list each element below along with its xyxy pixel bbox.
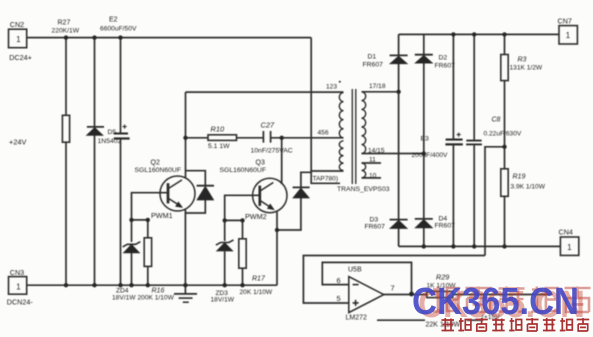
wire pin 11 stub <box>362 162 382 164</box>
node Q3 emitter diode <box>275 228 279 232</box>
connector CN7 <box>559 26 577 44</box>
watermark red large <box>433 287 591 313</box>
transformer T1 secondary winding 17/18-14/15 <box>362 92 366 154</box>
svg-text:D5: D5 <box>108 129 117 136</box>
wire E2 branch <box>120 38 122 286</box>
svg-text:R16: R16 <box>152 287 165 294</box>
svg-text:SGL160N60UF: SGL160N60UF <box>220 167 266 174</box>
node bottom bus ZD3 <box>223 283 227 287</box>
wire op-amp pin5 loop <box>303 256 485 304</box>
wire R3-R19 branch <box>504 34 506 246</box>
svg-text:CK365.CN: CK365.CN <box>412 281 579 323</box>
connector CN3 <box>9 277 27 295</box>
svg-text:E2: E2 <box>109 17 118 24</box>
wire op-amp pin6 feedback loop <box>322 262 411 294</box>
node C27 right / Q3 collector <box>280 136 284 140</box>
svg-text:E3: E3 <box>421 136 430 143</box>
wire ZD3 branch <box>224 220 226 285</box>
svg-text:ZD4: ZD4 <box>116 287 129 294</box>
transistor Q2 <box>160 176 195 211</box>
wire ZD4 branch <box>131 220 133 285</box>
zener ZD4 <box>123 242 141 253</box>
transistor Q3 <box>253 178 287 212</box>
wire Q3 collector <box>281 138 283 184</box>
wire Q3 base <box>225 195 259 220</box>
wire bottom DCN24- bus <box>27 284 277 286</box>
svg-text:LM272: LM272 <box>346 315 368 322</box>
resistor R19 <box>501 169 508 197</box>
svg-text:200K 1/10W: 200K 1/10W <box>138 294 175 301</box>
node divider R3-R19 <box>502 145 506 149</box>
wire top output bus to CN7 <box>399 33 559 35</box>
svg-text:18V/1W: 18V/1W <box>112 294 136 301</box>
node R10 left / Q2 collector <box>183 136 187 140</box>
node bottom bus R27 <box>64 283 68 287</box>
wire divider sense branch <box>485 147 505 256</box>
svg-text:14/15: 14/15 <box>368 148 385 155</box>
wire secondary 14/15 <box>362 153 424 155</box>
svg-text:C8: C8 <box>492 117 501 124</box>
svg-text:DCN24-: DCN24- <box>7 298 34 307</box>
svg-text:+24V: +24V <box>9 138 27 147</box>
capacitor E2 <box>114 125 130 139</box>
svg-text:7: 7 <box>391 284 395 293</box>
svg-text:FR607: FR607 <box>435 223 456 230</box>
svg-text:D4: D4 <box>439 216 448 223</box>
node PWM2 R17 <box>240 218 244 222</box>
diode D5 <box>87 127 104 135</box>
svg-text:6: 6 <box>337 276 341 285</box>
resistor R3 <box>501 55 508 81</box>
svg-text:U5B: U5B <box>348 267 362 274</box>
svg-text:1: 1 <box>16 35 20 44</box>
svg-text:C27: C27 <box>261 121 275 130</box>
node op-amp output <box>409 292 414 297</box>
wire C27 to tap 456 <box>271 137 344 139</box>
svg-text:220K/1W: 220K/1W <box>52 27 80 34</box>
svg-text:10: 10 <box>369 172 377 179</box>
svg-text:D3: D3 <box>370 217 379 224</box>
svg-text:1N5402: 1N5402 <box>98 138 122 145</box>
watermark caption <box>442 318 590 332</box>
wire pin 10 stub <box>362 177 382 179</box>
wire primary top 123 <box>186 91 344 93</box>
svg-text:CN2: CN2 <box>10 20 24 29</box>
resistor R16 <box>144 238 151 267</box>
node bottom bus ZD4 <box>129 283 133 287</box>
wire ground stub <box>184 285 186 293</box>
svg-text:200uF/400V: 200uF/400V <box>412 152 449 159</box>
wire D5 branch <box>94 38 96 286</box>
wire secondary 17/18 <box>362 91 399 93</box>
diode body Q2 <box>197 186 214 200</box>
svg-text:6600uF/50V: 6600uF/50V <box>100 25 137 32</box>
node bottom bus C8 <box>472 244 476 248</box>
op-amp U5B <box>349 277 384 313</box>
connector CN2 <box>9 29 27 48</box>
node bottom bus ground <box>183 283 187 287</box>
svg-text:D2: D2 <box>439 55 448 62</box>
svg-text:R19: R19 <box>513 174 526 181</box>
svg-text:PWM1: PWM1 <box>151 211 173 220</box>
zener ZD3 <box>216 240 234 251</box>
node PWM2 ZD3 <box>223 218 227 222</box>
capacitor C27 <box>263 131 270 143</box>
svg-text:DC24+: DC24+ <box>9 53 32 62</box>
node bottom bus R19 <box>502 244 506 248</box>
svg-text:SGL160N60UF: SGL160N60UF <box>135 167 181 174</box>
svg-text:0.22uF/630V: 0.22uF/630V <box>484 131 522 138</box>
wire 22K resistor leads <box>377 319 483 321</box>
wire E3 branch <box>452 34 454 246</box>
resistor R17 <box>239 239 246 268</box>
diode body Q3 <box>293 187 310 198</box>
node bottom bus R17 <box>240 283 244 287</box>
svg-text:D1: D1 <box>368 54 377 61</box>
svg-text:R17: R17 <box>252 276 266 283</box>
wire R17 branch <box>242 220 244 285</box>
node bottom bus D4 <box>422 244 426 248</box>
wire TAP780 loop <box>311 171 343 183</box>
wire R10 to C27 <box>237 137 264 139</box>
svg-text:5.1 1W: 5.1 1W <box>208 143 230 150</box>
wire C8 branch <box>473 34 475 246</box>
capacitor E3 <box>445 133 462 145</box>
node top bus R3 <box>502 32 506 36</box>
wire Q3 diode top link <box>301 172 311 186</box>
node top bus E2 <box>118 35 122 39</box>
node bottom bus R16 <box>146 283 150 287</box>
node bottom bus E3 <box>451 244 455 248</box>
wire D1-D3 vertical <box>398 34 400 246</box>
capacitor C8 <box>466 141 482 145</box>
node top bus D5 <box>92 35 96 39</box>
node secondary 17/18 <box>396 90 400 94</box>
node PWM1 ZD4 <box>129 218 133 222</box>
svg-text:Q2: Q2 <box>151 160 160 167</box>
svg-text:R10: R10 <box>211 125 225 134</box>
svg-text:1: 1 <box>16 283 20 292</box>
svg-text:11: 11 <box>369 157 376 164</box>
wire top DC24+ bus <box>27 37 311 39</box>
diode D3 <box>390 220 408 229</box>
node secondary 14/15 <box>422 151 426 155</box>
diode D4 <box>415 219 433 228</box>
node bottom bus E2 <box>118 283 122 287</box>
resistor R27 <box>62 115 69 142</box>
wire D2-D4 vertical <box>423 34 425 246</box>
wire Q3 diode to emitter <box>277 198 301 230</box>
svg-text:TRANS_EVPS03: TRANS_EVPS03 <box>337 186 390 193</box>
svg-text:131K 1/2W: 131K 1/2W <box>510 65 543 72</box>
svg-text:17/18: 17/18 <box>369 83 386 90</box>
svg-text:1: 1 <box>567 243 571 252</box>
svg-text:R27: R27 <box>58 20 71 27</box>
diode D2 <box>415 55 433 63</box>
node bottom bus D5 <box>92 283 96 287</box>
wire Q2 emitter <box>184 209 186 286</box>
wire bus drop to TAP780 node <box>310 38 312 171</box>
svg-text:FR607: FR607 <box>365 224 386 231</box>
svg-text:FR607: FR607 <box>363 62 384 69</box>
wire R27 branch <box>65 38 67 286</box>
wire node R10 left <box>186 137 209 139</box>
svg-text:5: 5 <box>337 294 341 303</box>
transformer T1 aux winding 11-10 <box>362 163 366 178</box>
svg-text:PWM2: PWM2 <box>245 212 267 221</box>
ground <box>174 294 197 302</box>
connector CN4 <box>560 237 578 255</box>
svg-text:10nF/275VAC: 10nF/275VAC <box>251 148 293 155</box>
svg-text:Q3: Q3 <box>256 160 265 167</box>
wire bottom bus to CN4 <box>399 245 561 247</box>
svg-text:3.9K 1/10W: 3.9K 1/10W <box>511 184 546 191</box>
svg-text:CN4: CN4 <box>559 228 573 237</box>
node top bus C8 <box>472 32 476 36</box>
svg-text:456: 456 <box>318 130 329 137</box>
svg-text:18V/1W: 18V/1W <box>211 297 235 304</box>
svg-text:TAP780): TAP780) <box>313 176 339 183</box>
transformer T1 core <box>352 89 356 184</box>
node top bus R27 <box>64 35 68 39</box>
svg-text:123: 123 <box>326 84 337 91</box>
transformer T1 primary winding 123/456 <box>339 93 343 171</box>
resistor R10 <box>208 135 237 141</box>
wire R16 branch <box>147 220 149 285</box>
wire Q2 base <box>132 193 167 220</box>
svg-text:FR607: FR607 <box>435 63 456 70</box>
svg-text:CN7: CN7 <box>558 17 572 26</box>
svg-text:R3: R3 <box>518 57 527 64</box>
wire Q2 diode to emitter <box>185 200 205 213</box>
node top bus E3 <box>451 32 455 36</box>
resistor R29 <box>427 291 453 297</box>
wire Q2 collector to diode <box>186 171 206 185</box>
wire Q3 emitter <box>276 212 278 285</box>
node PWM1 R16 <box>146 218 150 222</box>
svg-text:CN3: CN3 <box>10 268 24 277</box>
svg-text:1: 1 <box>566 31 570 40</box>
wire Q2 collector <box>185 92 187 179</box>
svg-text:20K 1/10W: 20K 1/10W <box>240 289 273 296</box>
wire op-amp output <box>384 294 551 296</box>
diode D1 <box>390 55 408 63</box>
